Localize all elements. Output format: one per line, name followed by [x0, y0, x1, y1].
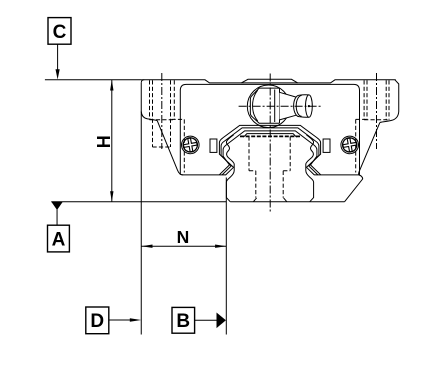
datum D box: [86, 307, 109, 334]
datum D arrowhead: [130, 318, 142, 321]
right seal hidden edge: [356, 119, 369, 172]
extension line (rail left side): [225, 178, 227, 335]
dimension H line: [111, 80, 113, 202]
grease nipple hex: [250, 88, 279, 123]
svg-text:D: D: [90, 311, 104, 332]
left end-cap screw: [180, 135, 200, 155]
svg-text:H: H: [94, 135, 114, 148]
carriage top-left corner: [141, 80, 144, 83]
datum D leader line: [109, 319, 131, 321]
carriage inner profile line 2: [221, 128, 319, 175]
dimension H bottom arrowhead: [110, 191, 113, 202]
grease nipple end face: [306, 95, 313, 117]
carriage bottom left: [182, 174, 227, 176]
datum line C (top mounting surface extension): [45, 79, 141, 81]
grease nipple boss circle: [247, 85, 290, 128]
datum C leader line: [57, 44, 59, 70]
datum B triangle: [217, 313, 226, 329]
bed step right of rail: [345, 175, 363, 202]
carriage inner profile line 4: [243, 134, 296, 138]
nipple horizontal centerline: [239, 105, 321, 107]
svg-text:C: C: [53, 22, 67, 43]
grease nipple cone neck: [280, 92, 297, 120]
datum C arrowhead: [56, 69, 60, 79]
svg-text:A: A: [52, 229, 66, 250]
svg-text:B: B: [176, 311, 190, 332]
dimension N left arrowhead: [141, 245, 152, 248]
right mounting hole (hidden): [364, 80, 389, 119]
datum A box: [48, 225, 70, 252]
carriage bottom right: [314, 174, 359, 176]
rail left side profile: [226, 135, 234, 202]
rail bolt through hole (hidden): [256, 171, 283, 198]
carriage top edge: [141, 80, 395, 83]
carriage inner profile line 3: [219, 131, 320, 175]
rail bolt hole counterbore (hidden): [249, 136, 290, 170]
datum line A (bottom mounting surface): [51, 201, 226, 203]
grease nipple hex chamfer arc: [253, 90, 258, 121]
grease nipple head fill: [294, 95, 313, 118]
left seal hidden edge: [172, 119, 185, 172]
right end-cap screw: [340, 135, 360, 155]
grease nipple hex facet line: [274, 90, 276, 123]
rail right side profile: [306, 135, 314, 202]
carriage inner profile line 1: [219, 125, 320, 175]
datum B leader line: [195, 319, 217, 321]
extension line (carriage left edge): [140, 83, 142, 335]
left retainer tab: [210, 139, 217, 152]
dimension N line: [141, 245, 226, 247]
left hole centerline: [161, 73, 163, 149]
grease nipple hole dot: [308, 105, 310, 107]
grease nipple head back rim: [294, 95, 302, 116]
dimension H top arrowhead: [110, 80, 113, 91]
carriage right flange underside: [380, 112, 399, 123]
carriage left flange underside: [141, 112, 157, 121]
datum A triangle: [51, 202, 63, 210]
vertical centerline: [269, 74, 271, 214]
right hole centerline: [376, 73, 378, 149]
rail bottom surface: [230, 201, 344, 203]
carriage top-right corner and right edge: [395, 80, 399, 112]
rail bolt hole exit chamfers: [253, 198, 286, 202]
carriage right flange slope: [359, 122, 380, 174]
dimension N right arrowhead: [215, 245, 226, 248]
rail top edge (hidden): [240, 135, 300, 137]
datum B box: [172, 307, 195, 333]
datum A stem: [56, 210, 58, 226]
right retainer tab: [323, 139, 330, 152]
carriage left flange slope: [157, 121, 183, 175]
end cap face edges: [180, 84, 359, 174]
datum C box: [48, 18, 71, 45]
left mounting hole (hidden): [150, 80, 175, 147]
svg-text:N: N: [177, 227, 190, 247]
grease nipple boss plate: [241, 79, 297, 83]
grease nipple head body: [299, 95, 309, 118]
